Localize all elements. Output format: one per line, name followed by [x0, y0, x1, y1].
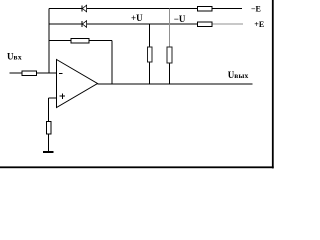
resistor R1 (input) [22, 71, 37, 76]
svg-text:−E: −E [251, 5, 261, 14]
resistor R5 (top right, to -E) [198, 6, 213, 11]
wire: +E supply rail (top horizontal) [49, 8, 242, 10]
label +E [254, 20, 264, 29]
label Uvyx (output voltage) [228, 70, 249, 80]
label -E [251, 5, 261, 14]
border: bottom edge [0, 166, 274, 168]
resistor R2 (feedback) [71, 38, 89, 43]
wire: gray tail after +E resistor [212, 23, 243, 25]
wire: ground leg vertical [48, 98, 50, 152]
wire: feedback branch (third horizontal) [49, 40, 112, 42]
svg-text:+E: +E [254, 20, 264, 29]
wire: input wire [10, 72, 57, 74]
diode VD1 (on top rail, cathode left) [82, 5, 87, 12]
resistor R7 (-U branch) [167, 47, 172, 63]
wire: non-inverting input stub [49, 97, 57, 99]
svg-text:Uвх: Uвх [7, 51, 22, 61]
wire: -U limiter branch vertical (gray upper segment) [169, 9, 171, 49]
op-amp non-inverting input mark + [60, 94, 65, 100]
wire: feedback drop to output node [111, 41, 113, 85]
ground [43, 151, 53, 153]
svg-text:+U: +U [131, 13, 143, 23]
label Uvx (input voltage) [7, 51, 22, 61]
wire: +U limiter branch vertical [149, 24, 151, 84]
resistor R3 (to ground) [46, 121, 51, 133]
op-amp inverting input mark - [59, 73, 63, 75]
label +U [131, 13, 143, 23]
wire: -E supply rail (second horizontal) [49, 23, 212, 25]
op-amp U1 (triangle) [57, 60, 98, 108]
diode VD2 (on second rail, cathode left) [82, 21, 87, 28]
wire: output wire [98, 83, 253, 85]
resistor R4 (+U branch) [147, 47, 152, 62]
wire: left vertical bus (inverting input node) [48, 9, 50, 74]
svg-text:Uвых: Uвых [228, 70, 249, 80]
svg-text:−U: −U [174, 14, 186, 24]
wire: -U limiter branch vertical (black lower segment) [169, 62, 171, 84]
label -U [174, 14, 186, 24]
border: right edge [272, 0, 274, 168]
resistor R6 (second row, to +E) [198, 22, 213, 27]
